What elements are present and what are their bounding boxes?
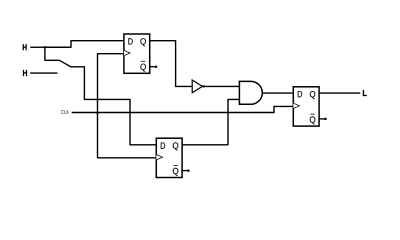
wire U2 Qbar stub with dot	[318, 118, 326, 121]
buffer U4	[192, 80, 202, 93]
wire U2 Q output to node L	[319, 92, 360, 94]
wire H to junction	[30, 46, 45, 48]
node H (second input label, unconnected)	[23, 70, 27, 76]
wire AND gate U5 output to U2 D input	[262, 92, 293, 94]
wire buffer U4 output to AND gate U5 input A	[202, 85, 239, 87]
wire H net to U3 D input	[45, 47, 156, 145]
flip-flop U2	[293, 87, 319, 126]
AND gate U5	[239, 81, 262, 104]
node H (first input label)	[23, 44, 27, 50]
wire U3 Q output to AND gate U5 input B	[182, 99, 239, 144]
flip-flop U1	[124, 34, 150, 73]
junction dot on H net	[44, 46, 47, 49]
wire H net to U1 D input	[45, 41, 124, 48]
junction dot on CLK net	[96, 111, 99, 114]
node CLK (clock input label)	[61, 110, 69, 114]
wire CLK main run to U2 clock pin	[72, 106, 294, 112]
wire U3 Qbar stub with dot	[181, 169, 189, 172]
wire CLK branch down to U3 clock pin	[98, 113, 157, 158]
wire H2 stub	[30, 72, 57, 74]
wire U1 Qbar stub with dot	[149, 65, 157, 68]
wire U1 Q output to buffer U4 input	[150, 41, 193, 87]
flip-flop U3	[156, 138, 182, 177]
wire CLK branch up to U1 clock pin	[98, 54, 124, 113]
junction dot at buffer U4 output	[203, 85, 205, 87]
node L (output label)	[363, 90, 367, 96]
